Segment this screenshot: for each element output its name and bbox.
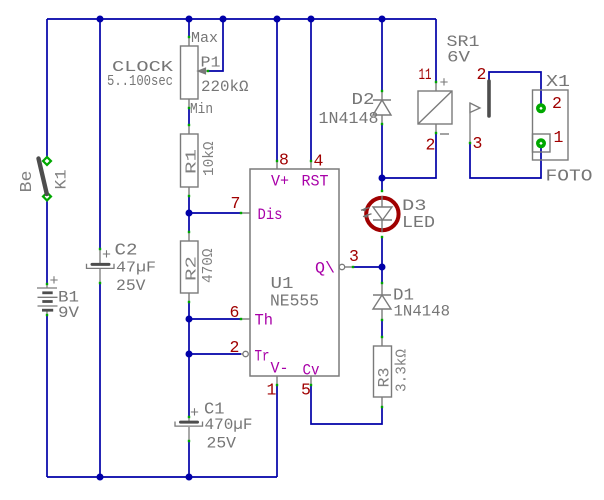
LED D3 diode symbol — [373, 196, 392, 232]
wire bus to D2 — [381, 19, 383, 91]
svg-text:7: 7 — [231, 194, 241, 213]
svg-text:+: + — [190, 405, 199, 422]
relay SR1 coil — [418, 82, 452, 133]
svg-text:R2: R2 — [184, 256, 201, 281]
junction node Dis — [186, 210, 193, 217]
svg-text:Be: Be — [17, 171, 36, 193]
junction bottom bus at C1 — [186, 474, 193, 481]
svg-text:6: 6 — [230, 303, 240, 322]
svg-text:X1: X1 — [546, 73, 570, 92]
junction top bus at C2 — [97, 16, 104, 23]
wire pin 8 V+ — [276, 19, 278, 161]
svg-text:+: + — [440, 75, 449, 92]
op-amp U1 NE555 box — [250, 169, 339, 376]
wire node A to LED — [381, 178, 383, 191]
svg-text:FOTO: FOTO — [546, 168, 593, 187]
svg-text:3: 3 — [473, 134, 483, 153]
svg-text:V+: V+ — [271, 173, 289, 191]
svg-text:8: 8 — [279, 151, 289, 170]
svg-text:1: 1 — [267, 381, 277, 400]
junction node Th — [186, 316, 193, 323]
junction top bus at P1 — [186, 16, 193, 23]
wire bus to relay top — [435, 19, 437, 82]
svg-text:220kΩ: 220kΩ — [201, 78, 249, 96]
wire R2 to C1 node — [188, 302, 190, 417]
pin 6 stub — [241, 318, 250, 320]
svg-text:2: 2 — [426, 136, 436, 155]
connector X1 pin 1 pad — [536, 138, 546, 148]
capacitor C1 — [175, 417, 203, 441]
svg-text:D2: D2 — [352, 91, 375, 110]
pin 7 stub — [241, 212, 250, 214]
wire D1 to R3 — [381, 320, 383, 337]
svg-text:25V: 25V — [116, 277, 146, 295]
connector X1 pin 2 pad — [536, 103, 546, 113]
potentiometer P1 body — [181, 37, 199, 108]
svg-text:LED: LED — [402, 214, 435, 233]
svg-text:6V: 6V — [447, 49, 470, 67]
wire X1 pin 1 to switch pin 3 — [470, 144, 541, 178]
svg-text:2: 2 — [552, 94, 562, 113]
diode D1 1N4148 — [373, 283, 391, 320]
svg-text:11: 11 — [419, 66, 432, 84]
switch K1 pins — [43, 157, 51, 165]
LED D3 ring — [366, 198, 398, 230]
svg-text:Min: Min — [190, 102, 213, 118]
wire LED to Q node — [381, 237, 383, 267]
LED D3 light arrows — [361, 207, 372, 218]
wire pin 7 Dis — [189, 212, 241, 214]
switch K1 blade — [39, 159, 47, 195]
junction node A relay/D2/LED — [379, 175, 386, 182]
wire left branch to K1 — [46, 19, 48, 157]
svg-text:470µF: 470µF — [205, 416, 253, 434]
wire D2 to node A — [381, 124, 383, 178]
resistor R3 — [374, 337, 392, 407]
pin 8 stub — [276, 161, 278, 169]
junction node Q — [379, 264, 386, 271]
svg-text:+: + — [102, 247, 111, 264]
svg-text:2: 2 — [230, 338, 240, 357]
resistor R1 — [181, 125, 199, 196]
svg-text:V-: V- — [271, 360, 289, 378]
junction node Tr — [186, 351, 193, 358]
svg-text:C2: C2 — [115, 242, 138, 261]
svg-text:47µF: 47µF — [116, 260, 156, 277]
junction top bus at wiper — [220, 16, 227, 23]
pin 5 stub — [310, 376, 312, 385]
wire C1 to bottom bus — [188, 441, 190, 477]
svg-text:NE555: NE555 — [270, 293, 319, 312]
pin 3 stub and bubble — [339, 264, 344, 269]
wire top supply bus — [47, 18, 436, 20]
svg-text:1N4148: 1N4148 — [394, 303, 451, 321]
svg-text:470Ω: 470Ω — [200, 249, 217, 284]
svg-text:P1: P1 — [201, 56, 221, 72]
svg-text:2: 2 — [477, 65, 487, 84]
wire pin 6 Th — [189, 318, 241, 320]
wire R1 to R2 node — [188, 196, 190, 232]
svg-text:RST: RST — [302, 173, 329, 191]
capacitor C2 — [87, 249, 115, 283]
svg-text:K1: K1 — [53, 170, 71, 190]
wire pin 1 V- to bottom bus — [276, 385, 278, 477]
junction bottom bus at C2 — [97, 474, 104, 481]
svg-text:R1: R1 — [184, 149, 201, 174]
wire K1 to battery B1 — [46, 200, 48, 284]
svg-text:D3: D3 — [402, 197, 427, 215]
connector X1 inner box pin 1 — [533, 134, 551, 152]
wire C2 branch lower — [99, 283, 101, 477]
relay SR1 minus sign — [440, 133, 449, 135]
svg-text:3: 3 — [349, 247, 359, 266]
diode D2 1N4148 — [373, 91, 391, 124]
wire battery B1 to bottom bus — [46, 315, 48, 477]
svg-text:9V: 9V — [58, 304, 79, 322]
potentiometer P1 wiper arrow — [198, 68, 208, 73]
wire C2 branch upper — [99, 19, 101, 249]
wire pin 2 Tr — [189, 353, 241, 355]
svg-text:Cv: Cv — [303, 362, 320, 380]
wire node A to relay — [382, 133, 436, 178]
svg-text:Dis: Dis — [258, 206, 283, 224]
wire wiper of P1 — [208, 19, 223, 71]
svg-text:Q\: Q\ — [315, 260, 335, 278]
relay contact fixed bar — [487, 81, 491, 116]
svg-text:10kΩ: 10kΩ — [201, 142, 218, 177]
connector X1 outer box — [533, 90, 569, 160]
svg-text:3.3kΩ: 3.3kΩ — [394, 349, 411, 392]
svg-text:+: + — [50, 273, 59, 290]
svg-text:Max: Max — [191, 31, 218, 47]
svg-text:1N4148: 1N4148 — [319, 109, 379, 128]
wire P1 to R1 — [188, 108, 190, 125]
pin 1 stub — [276, 376, 278, 385]
wire bottom ground bus — [47, 476, 277, 478]
pin connection ticks — [46, 36, 471, 442]
wire pin 3 Q to node — [353, 266, 382, 268]
svg-text:Tr: Tr — [255, 348, 270, 366]
svg-text:5..100sec: 5..100sec — [107, 73, 173, 90]
wire R3 to pin 5 Cv — [311, 385, 382, 424]
resistor R2 — [181, 232, 199, 302]
junction top bus at D2 — [379, 16, 386, 23]
svg-text:4: 4 — [314, 152, 324, 171]
svg-text:1: 1 — [554, 128, 564, 147]
wire Q node to D1 — [381, 267, 383, 283]
pin 4 stub — [310, 161, 312, 169]
pin 2 stub and bubble — [241, 353, 243, 355]
svg-text:5: 5 — [301, 381, 311, 400]
junction top bus at pin 8 — [274, 16, 281, 23]
svg-text:25V: 25V — [207, 435, 237, 453]
svg-text:Th: Th — [255, 312, 274, 330]
battery B1 — [37, 284, 58, 315]
relay contact moving pin with flag — [470, 103, 480, 144]
junction top bus at pin 4 — [308, 16, 315, 23]
wire switch contact to X1 pin 2 — [489, 72, 541, 104]
svg-text:U1: U1 — [271, 274, 294, 293]
svg-text:R3: R3 — [376, 368, 394, 388]
wire bus to P1 — [188, 19, 190, 37]
wire pin 4 RST — [310, 19, 312, 161]
